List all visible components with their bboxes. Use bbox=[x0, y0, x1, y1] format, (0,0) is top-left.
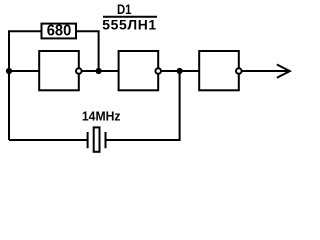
crystal ZQ1 body bbox=[94, 127, 100, 151]
inverter U1.1 output bubble bbox=[76, 68, 82, 74]
wire: gate2 output to gate3 input bbox=[158, 70, 200, 72]
svg-text:D1: D1 bbox=[117, 2, 132, 18]
wire: gate1 output to gate2 input bbox=[79, 70, 119, 72]
svg-text:14MHz: 14MHz bbox=[82, 109, 121, 123]
inverter U1.3 body bbox=[199, 51, 239, 90]
inverter U1.2 output bubble bbox=[155, 68, 161, 74]
wire: input to gate 1 bbox=[9, 70, 40, 72]
wire: output line bbox=[239, 70, 289, 72]
node A junction dot bbox=[96, 68, 102, 74]
inverter U1.1 body bbox=[39, 51, 79, 90]
output arrowhead bbox=[277, 65, 290, 78]
svg-text:555ЛН1: 555ЛН1 bbox=[102, 17, 156, 33]
crystal ZQ1 left plate bbox=[87, 132, 89, 148]
wire: feedback top-left (up, across to resistor) bbox=[9, 31, 41, 140]
fraction bar bbox=[103, 16, 157, 18]
wire: crystal to bottom-right, up to node B bbox=[107, 71, 180, 140]
resistor R1 box bbox=[42, 24, 77, 39]
wire: resistor output down to node A bbox=[76, 31, 99, 71]
svg-text:680: 680 bbox=[47, 23, 72, 40]
node B junction dot bbox=[177, 68, 183, 74]
wire: bottom loop left to crystal bbox=[9, 139, 87, 141]
input node junction dot bbox=[6, 68, 12, 74]
inverter U1.3 output bubble bbox=[236, 68, 242, 74]
inverter U1.2 body bbox=[119, 51, 159, 90]
crystal ZQ1 right plate bbox=[105, 132, 107, 148]
